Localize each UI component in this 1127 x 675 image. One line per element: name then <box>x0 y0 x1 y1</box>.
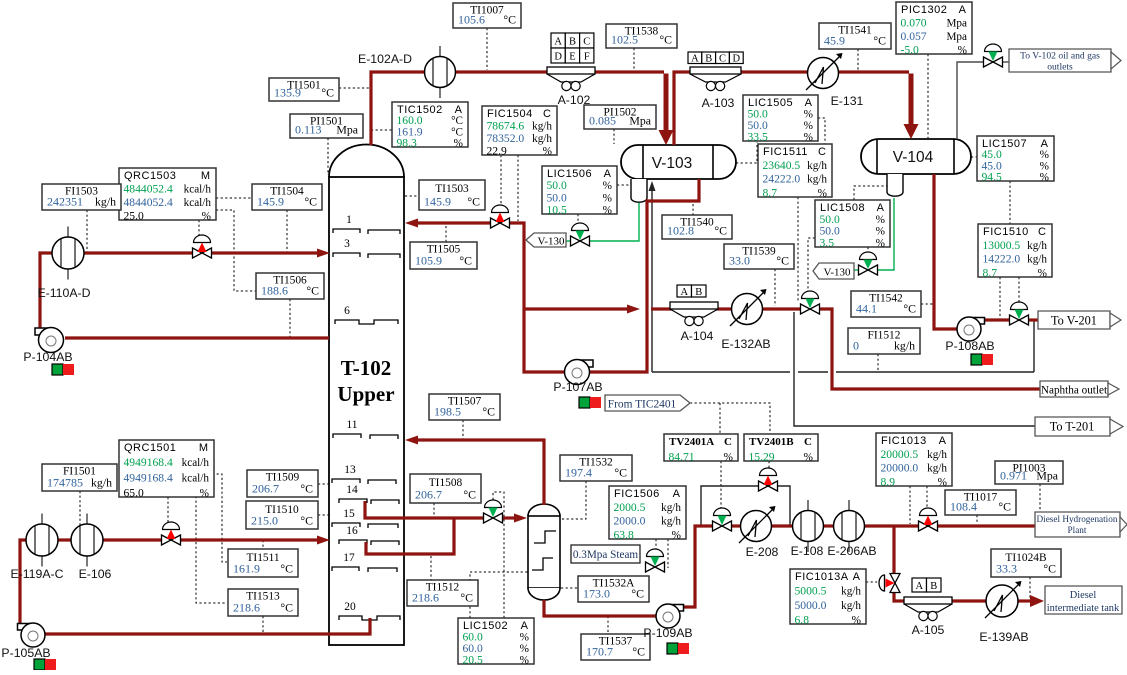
svg-text:6.8: 6.8 <box>795 614 810 627</box>
signal line TI1537 <box>607 616 609 634</box>
line P-105AB discharge to E-119 E-106 <box>20 540 162 624</box>
line tray 14 draw to stripper <box>365 501 484 518</box>
svg-text:197.4: 197.4 <box>565 466 592 480</box>
flag tip to V-201 <box>1110 313 1121 327</box>
svg-text:%: % <box>543 146 552 158</box>
svg-text:kcal/h: kcal/h <box>182 457 210 469</box>
svg-text:Upper: Upper <box>337 382 394 406</box>
svg-text:C: C <box>1038 226 1046 238</box>
svg-text:E-110A-D: E-110A-D <box>37 286 90 300</box>
signal line TI1506 <box>289 299 291 338</box>
label P-108AB <box>945 339 994 353</box>
svg-text:%: % <box>603 192 612 204</box>
label E-139AB <box>979 630 1028 644</box>
label P-107AB <box>553 380 602 394</box>
instrument FIC1013A <box>790 569 866 627</box>
svg-text:4844052.4: 4844052.4 <box>124 183 173 196</box>
signal line LIC1502 to valve <box>493 492 504 618</box>
instrument TI1507 <box>429 394 500 420</box>
svg-text:198.5: 198.5 <box>434 405 461 419</box>
signal line LIC1505 to FIC1511 <box>818 118 825 144</box>
svg-text:°C: °C <box>463 488 476 502</box>
heat exchanger E-108 <box>793 500 824 552</box>
svg-text:°C: °C <box>300 514 313 528</box>
svg-text:14222.0: 14222.0 <box>983 253 1021 266</box>
svg-text:%: % <box>852 615 861 627</box>
svg-text:TI1503: TI1503 <box>435 183 469 195</box>
svg-text:E-208: E-208 <box>746 545 779 559</box>
svg-text:°C: °C <box>631 587 644 601</box>
svg-text:A: A <box>521 620 529 632</box>
svg-text:218.6: 218.6 <box>412 591 439 605</box>
svg-text:°C: °C <box>873 34 886 48</box>
instrument TI1537 <box>581 634 650 660</box>
air cooler A-104 <box>670 302 718 326</box>
svg-text:%: % <box>202 211 211 223</box>
svg-text:kg/h: kg/h <box>532 121 552 133</box>
label E-131 <box>831 94 864 108</box>
svg-text:%: % <box>603 180 612 192</box>
svg-text:°C: °C <box>300 482 313 496</box>
cooler E-131 <box>806 53 843 90</box>
cooler E-139AB <box>985 581 1022 618</box>
svg-text:kcal/h: kcal/h <box>184 197 212 209</box>
label E-110A-D <box>37 286 90 300</box>
instrument TV2401A <box>664 434 738 464</box>
valve to V-201 FIC1510 <box>1010 302 1029 325</box>
signal line FI1501 <box>79 491 81 540</box>
svg-text:102.5: 102.5 <box>611 33 638 47</box>
line P-104AB discharge to E-110 <box>40 253 192 330</box>
tray 1 <box>333 229 400 234</box>
air cooler A-102 <box>547 67 595 91</box>
tray numbers <box>343 214 358 613</box>
svg-text:A: A <box>877 202 885 214</box>
signal line FI1512 <box>877 354 879 371</box>
svg-text:E-206AB: E-206AB <box>827 544 876 558</box>
svg-text:15.29: 15.29 <box>749 451 775 464</box>
signal line LIC1507 to FIC1510 <box>1009 181 1011 224</box>
svg-text:0.113: 0.113 <box>295 123 322 137</box>
svg-text:2000.5: 2000.5 <box>614 501 646 514</box>
svg-text:D: D <box>554 51 562 62</box>
line stripper overhead return to column tray 11 <box>405 436 544 506</box>
svg-text:°C: °C <box>459 254 472 268</box>
svg-text:33.5: 33.5 <box>748 131 768 144</box>
svg-text:C: C <box>543 108 551 120</box>
svg-text:%: % <box>876 214 885 226</box>
svg-text:C: C <box>818 146 826 158</box>
label P-105AB <box>1 646 50 660</box>
instrument PI1502 <box>584 105 656 129</box>
svg-text:0.057: 0.057 <box>901 30 927 43</box>
valve V-130 vent 1 <box>571 223 590 246</box>
svg-text:3: 3 <box>344 238 350 250</box>
signal line LIC1508 to valve <box>808 238 815 301</box>
flag to V-201 <box>1038 311 1110 329</box>
svg-text:%: % <box>804 120 813 132</box>
svg-text:To V-102 oil and gas: To V-102 oil and gas <box>1020 51 1100 62</box>
signal line LIC1506 tap <box>617 184 631 186</box>
flag to T-201 <box>1035 417 1110 436</box>
instrument TI1508 <box>410 474 481 503</box>
signal line TI1508 <box>433 503 435 517</box>
svg-text:135.9: 135.9 <box>274 86 301 100</box>
line branch to A-105 <box>892 526 895 574</box>
svg-text:kg/h: kg/h <box>91 476 112 490</box>
svg-text:E-106: E-106 <box>79 567 112 581</box>
instrument PI1501 <box>290 114 363 138</box>
instrument FIC1506 <box>609 486 686 542</box>
instrument TI1539 <box>724 244 794 269</box>
line P-108AB discharge to V-201 <box>981 318 1038 321</box>
signal line TI1507 <box>462 420 464 440</box>
signal line branch to TV2401A <box>719 403 721 434</box>
svg-text:P-108AB: P-108AB <box>945 339 994 353</box>
line main through E-208 E-108 E-206AB <box>731 524 919 527</box>
vessel V-103 <box>621 145 736 179</box>
svg-text:Mpa: Mpa <box>1036 469 1058 483</box>
flag tip to T-201 <box>1110 419 1123 434</box>
svg-text:kg/h: kg/h <box>927 463 947 475</box>
svg-text:To T-201: To T-201 <box>1050 420 1095 434</box>
svg-text:0.085: 0.085 <box>589 114 616 128</box>
instrument TI1024B <box>991 549 1061 577</box>
svg-text:63.8: 63.8 <box>614 529 634 542</box>
instrument FI1503 <box>42 184 121 210</box>
svg-text:A: A <box>680 287 688 298</box>
signal line FIC1511 to valve <box>797 197 799 301</box>
instrument FI1501 <box>42 464 117 491</box>
valve TV2401A <box>713 508 732 531</box>
label box 0.3Mpa Steam <box>571 545 640 563</box>
svg-text:%: % <box>818 188 827 200</box>
svg-text:206.7: 206.7 <box>415 488 442 502</box>
heat exchanger E-119A-C <box>26 514 58 567</box>
instrument TI1538 <box>606 24 677 48</box>
valve V-130 vent 2 <box>859 252 878 275</box>
svg-text:25.0: 25.0 <box>124 210 144 223</box>
svg-text:C: C <box>583 36 590 47</box>
svg-text:50.0: 50.0 <box>547 191 567 204</box>
svg-text:84.71: 84.71 <box>669 451 695 464</box>
svg-text:outlets: outlets <box>1047 62 1073 73</box>
instrument TI1509 <box>247 470 318 497</box>
stripper internal step 2 <box>532 558 553 570</box>
svg-text:A: A <box>805 97 813 109</box>
svg-text:Diesel Hydrogenation: Diesel Hydrogenation <box>1037 514 1118 524</box>
svg-text:-5.0: -5.0 <box>901 44 920 57</box>
svg-text:E-139AB: E-139AB <box>979 630 1028 644</box>
svg-text:To V-201: To V-201 <box>1051 314 1097 328</box>
svg-text:0.3Mpa Steam: 0.3Mpa Steam <box>573 549 639 561</box>
signal line TI1509 <box>318 483 329 485</box>
label E-102A-D <box>358 52 412 66</box>
svg-text:4949168.4: 4949168.4 <box>124 471 173 484</box>
pump P-107AB <box>565 360 594 385</box>
svg-text:78352.0: 78352.0 <box>487 132 525 145</box>
label E-206AB <box>827 544 876 558</box>
instrument QRC1503 <box>119 168 216 223</box>
svg-text:108.4: 108.4 <box>950 500 977 514</box>
valve naphtha FIC1511 <box>801 291 820 314</box>
svg-text:P-107AB: P-107AB <box>553 380 602 394</box>
svg-text:kg/h: kg/h <box>841 600 861 612</box>
svg-text:kg/h: kg/h <box>661 502 681 514</box>
svg-text:%: % <box>454 138 463 150</box>
svg-text:°C: °C <box>714 224 727 238</box>
signal line LIC1508 to V-130 valve <box>867 247 869 259</box>
signal line TI1511 <box>262 540 264 549</box>
valve QRC1501 <box>162 522 181 545</box>
instrument TI1503 <box>419 180 485 210</box>
signal line FI1503 <box>86 210 88 253</box>
cooler E-208 <box>739 506 776 543</box>
line branch to A-104 <box>524 305 672 314</box>
label E-106 <box>79 567 112 581</box>
flag diesel hydrogenation plant <box>1035 512 1120 537</box>
svg-text:°C: °C <box>304 195 317 209</box>
signal line LIC1506 to valve <box>577 214 579 223</box>
svg-text:A: A <box>959 4 967 16</box>
line E-139AB to diesel tank <box>1017 595 1044 607</box>
signal line LIC1502 tap <box>470 572 528 618</box>
valve FIC1013A <box>879 574 900 593</box>
svg-text:14: 14 <box>346 484 358 496</box>
line to Diesel Hydrogenation Plant <box>937 524 1036 527</box>
instrument PI1003 <box>995 461 1063 484</box>
svg-text:°C: °C <box>659 33 672 47</box>
label P-104AB <box>23 350 72 364</box>
svg-text:23640.5: 23640.5 <box>763 159 801 172</box>
svg-text:20000.0: 20000.0 <box>881 462 919 475</box>
svg-text:E-119A-C: E-119A-C <box>10 567 63 581</box>
svg-text:%: % <box>804 109 813 121</box>
svg-text:Mpa: Mpa <box>336 123 358 137</box>
svg-text:Mpa: Mpa <box>629 114 651 128</box>
svg-text:kg/h: kg/h <box>532 133 552 145</box>
svg-text:%: % <box>520 643 529 655</box>
heat exchanger E-102A-D <box>425 46 456 98</box>
status squares P-108AB <box>971 354 993 365</box>
line column overhead to E-102 A-102 <box>371 72 664 145</box>
svg-text:%: % <box>672 530 681 542</box>
signal line PIC1302 <box>927 54 929 138</box>
instrument TI1506 <box>256 273 324 299</box>
svg-text:kg/h: kg/h <box>807 160 827 172</box>
signal line From TIC2401 to TV2401B <box>690 403 770 434</box>
svg-text:QRC1503: QRC1503 <box>124 170 176 182</box>
svg-text:T-102: T-102 <box>341 356 392 380</box>
signal line TI1532 <box>560 481 586 519</box>
svg-text:C: C <box>724 436 732 448</box>
svg-text:°C: °C <box>280 601 293 615</box>
svg-text:PIC1302: PIC1302 <box>901 4 947 16</box>
svg-text:13000.5: 13000.5 <box>983 239 1021 252</box>
line tray 16 draw joining stripper feed <box>366 518 454 554</box>
svg-text:3.5: 3.5 <box>820 237 835 250</box>
tray 15 <box>332 523 398 528</box>
svg-text:173.0: 173.0 <box>583 587 610 601</box>
line valve to naphtha outlet <box>819 309 1040 389</box>
svg-text:intermediate tank: intermediate tank <box>1047 603 1120 614</box>
cooler E-132AB <box>730 289 767 326</box>
instrument TI1505 <box>410 242 477 269</box>
signal line LIC1507 tap <box>971 156 977 158</box>
svg-text:V-103: V-103 <box>652 155 693 172</box>
svg-text:From TIC2401: From TIC2401 <box>608 399 677 411</box>
instrument TI1532A <box>578 576 649 602</box>
instrument TI1542 <box>851 291 921 317</box>
svg-text:B: B <box>695 287 702 298</box>
instrument LIC1507 <box>977 136 1054 184</box>
instrument TI1532 <box>560 455 632 481</box>
svg-text:17: 17 <box>343 552 355 564</box>
svg-text:4949168.4: 4949168.4 <box>124 456 173 469</box>
signal line TI1504 <box>286 210 288 253</box>
svg-text:°C: °C <box>460 591 473 605</box>
svg-text:11: 11 <box>346 419 357 431</box>
svg-text:A-105: A-105 <box>912 623 945 637</box>
signal line FIC1504 tap <box>517 155 519 221</box>
line V-104 liquid to pump P-108AB <box>934 174 958 329</box>
svg-text:°C: °C <box>1043 562 1056 576</box>
svg-text:TV2401B: TV2401B <box>749 436 794 448</box>
signal line QRC1503 to TI1506 <box>216 210 256 291</box>
signal line TI1024B <box>1029 577 1031 598</box>
signal line PI1003 <box>1039 484 1041 524</box>
svg-text:%: % <box>520 632 529 644</box>
svg-text:°C: °C <box>903 302 916 316</box>
svg-text:13: 13 <box>344 464 356 476</box>
svg-text:kg/h: kg/h <box>927 449 947 461</box>
svg-text:FIC1510: FIC1510 <box>983 226 1029 238</box>
svg-text:%: % <box>724 452 733 464</box>
tray 13 <box>332 479 396 484</box>
svg-text:%: % <box>958 45 967 57</box>
gray bypass loop around E-208 <box>701 486 790 525</box>
valve to V-102 <box>984 44 1003 67</box>
instrument FIC1510 <box>978 224 1052 280</box>
line P-109AB discharge riser <box>680 526 713 607</box>
svg-text:FIC1504: FIC1504 <box>487 108 533 120</box>
svg-text:kg/h: kg/h <box>841 586 861 598</box>
column T-102 Upper shell <box>329 145 404 646</box>
label A-102 <box>558 93 591 107</box>
svg-text:50.0: 50.0 <box>547 179 567 192</box>
label E-119A-C <box>10 567 63 581</box>
gray line tap to T-201 <box>794 312 1035 426</box>
svg-text:174785: 174785 <box>47 476 83 490</box>
svg-text:°C: °C <box>321 86 334 100</box>
svg-text:FIC1511: FIC1511 <box>763 146 808 158</box>
gray balance line riser to V-201 line <box>1033 321 1035 372</box>
svg-text:kg/h: kg/h <box>661 516 681 528</box>
svg-text:kcal/h: kcal/h <box>182 472 210 484</box>
label T-102 Upper <box>337 356 394 406</box>
signal line FIC1504 to valve <box>500 155 502 205</box>
valve FIC1013 <box>919 508 938 531</box>
svg-text:kg/h: kg/h <box>1027 254 1047 266</box>
status squares P-105AB <box>34 659 56 670</box>
flag diesel intermediate tank <box>1045 586 1122 614</box>
svg-text:20.5: 20.5 <box>463 654 483 667</box>
signal line FIC1510 tap <box>999 277 1001 316</box>
signal line TI1505 <box>445 226 447 242</box>
signal line TI1513 <box>262 616 264 634</box>
signal line TI1541 <box>857 49 859 70</box>
svg-text:FIC1506: FIC1506 <box>614 488 660 500</box>
line valve to A-105 <box>894 592 906 601</box>
valve stripper feed <box>484 500 503 523</box>
A-105 bay letters <box>912 578 941 592</box>
svg-text:°C: °C <box>614 466 627 480</box>
svg-text:102.8: 102.8 <box>667 224 694 238</box>
svg-text:kg/h: kg/h <box>1027 240 1047 252</box>
green vent line V-103 boot to V-130 <box>566 203 639 241</box>
svg-text:A: A <box>691 54 699 65</box>
tray 17 <box>332 567 397 572</box>
label P-109AB <box>643 626 692 640</box>
vessel V-104 boot <box>887 174 903 196</box>
svg-text:kg/h: kg/h <box>95 195 116 209</box>
svg-text:°C: °C <box>776 254 789 268</box>
line A-105 to E-139AB <box>950 599 987 602</box>
black arrow up into V-103 bottom <box>649 181 656 191</box>
label E-208 <box>746 545 779 559</box>
svg-text:P-105AB: P-105AB <box>1 646 50 660</box>
instrument LIC1506 <box>542 166 617 217</box>
instrument TI1511 <box>228 549 298 577</box>
svg-text:E-132AB: E-132AB <box>721 337 770 351</box>
flag to V-102 oil and gas outlets <box>1009 49 1111 73</box>
svg-text:C: C <box>804 436 812 448</box>
svg-text:0.971: 0.971 <box>1000 469 1027 483</box>
signal line QRC1503 to TI1504 <box>216 197 253 199</box>
line E-106 feed into column tray 16 <box>180 536 330 545</box>
svg-text:%: % <box>1040 172 1049 184</box>
signal line TI1512 <box>430 556 432 580</box>
svg-text:5000.5: 5000.5 <box>795 585 827 598</box>
svg-text:B: B <box>705 54 712 65</box>
signal line QRC1503 to valve <box>198 220 200 242</box>
svg-text:33.3: 33.3 <box>996 562 1017 576</box>
label A-103 <box>702 96 735 110</box>
svg-text:Plant: Plant <box>1068 525 1087 535</box>
instrument FI1512 <box>848 328 920 354</box>
signal line FIC1013 tap <box>909 486 911 524</box>
svg-text:0.070: 0.070 <box>901 17 927 30</box>
svg-text:22.9: 22.9 <box>487 145 507 158</box>
signal line QRC1501 to valve <box>167 497 169 529</box>
svg-text:206.7: 206.7 <box>252 482 279 496</box>
svg-text:65.0: 65.0 <box>124 487 144 500</box>
line E-110 pumparound draw <box>65 336 329 339</box>
svg-text:°C: °C <box>467 195 480 209</box>
svg-text:8.7: 8.7 <box>983 267 998 280</box>
svg-text:FIC1013: FIC1013 <box>881 435 927 447</box>
svg-text:V-104: V-104 <box>893 149 934 166</box>
svg-text:E-131: E-131 <box>831 94 864 108</box>
svg-text:A-104: A-104 <box>681 329 714 343</box>
svg-text:218.6: 218.6 <box>233 601 260 615</box>
svg-text:P-109AB: P-109AB <box>643 626 692 640</box>
svg-text:%: % <box>520 655 529 667</box>
svg-text:A: A <box>673 488 681 500</box>
svg-text:145.9: 145.9 <box>424 195 451 209</box>
svg-text:%: % <box>1038 268 1047 280</box>
svg-text:15: 15 <box>343 508 355 520</box>
